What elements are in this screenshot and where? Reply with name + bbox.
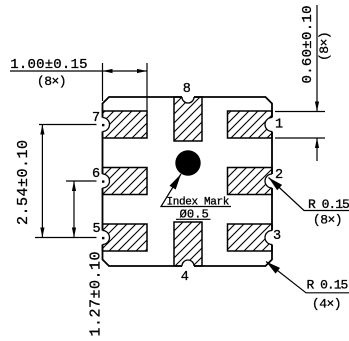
svg-text:8: 8 — [183, 82, 191, 97]
svg-text:2.54±0.10: 2.54±0.10 — [15, 139, 32, 225]
svg-text:Ø0.5: Ø0.5 — [180, 207, 209, 221]
svg-text:4: 4 — [181, 270, 189, 285]
svg-text:2: 2 — [275, 168, 283, 183]
svg-text:1.00±0.15: 1.00±0.15 — [10, 57, 87, 73]
svg-text:R 0.15: R 0.15 — [308, 197, 349, 212]
svg-text:R 0.15: R 0.15 — [307, 278, 348, 293]
svg-text:3: 3 — [273, 229, 281, 244]
svg-text:5: 5 — [92, 222, 100, 237]
svg-text:(8×): (8×) — [37, 74, 66, 89]
svg-text:1.27±0.10: 1.27±0.10 — [88, 251, 105, 337]
svg-text:0.60±0.10: 0.60±0.10 — [300, 5, 316, 83]
svg-text:(8×): (8×) — [317, 32, 332, 61]
svg-text:(4×): (4×) — [312, 297, 341, 312]
svg-text:7: 7 — [92, 111, 100, 126]
svg-text:(8×): (8×) — [313, 213, 342, 228]
svg-text:1: 1 — [275, 118, 283, 133]
svg-text:6: 6 — [92, 167, 100, 182]
